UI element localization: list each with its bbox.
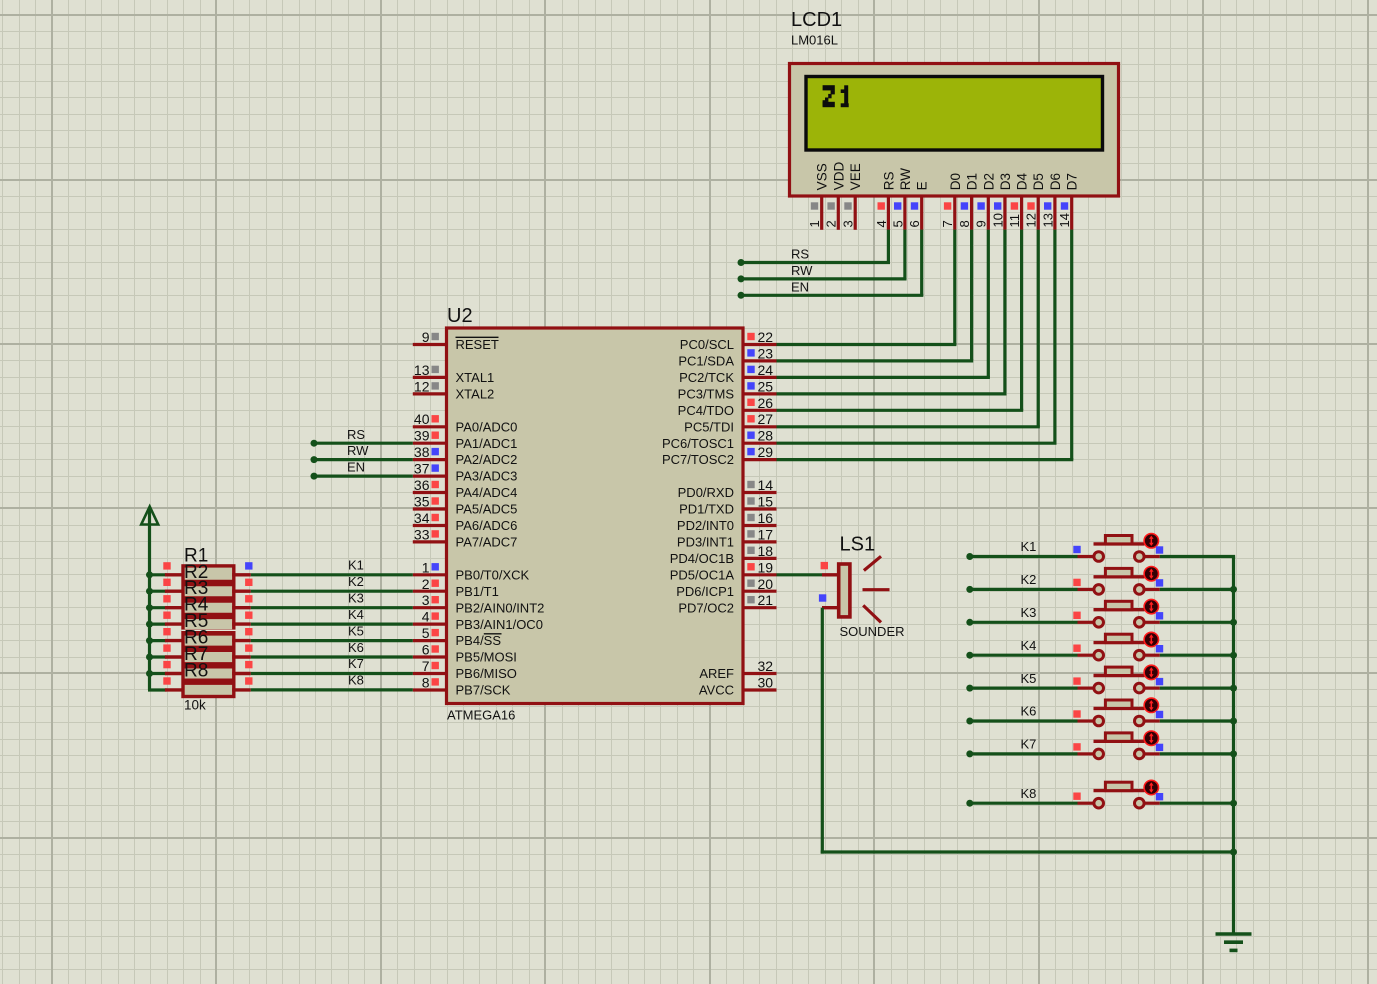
svg-text:EN: EN: [347, 460, 365, 475]
U2 pin 30 AVCC (right): [699, 675, 777, 698]
wire EN net from LCD: [741, 230, 923, 296]
net label EN: [791, 279, 809, 294]
svg-text:K8: K8: [1021, 786, 1037, 801]
svg-text:PA5/ADC5: PA5/ADC5: [456, 502, 518, 517]
LCD pin 10 D3: [990, 173, 1013, 230]
svg-text:19: 19: [758, 559, 774, 575]
resistor R3 pins and stubs: [163, 595, 252, 608]
U2 pin 18 PD4/OC1B (right): [670, 543, 777, 566]
LCD pin 9 D2: [974, 173, 997, 230]
svg-text:13: 13: [1040, 213, 1055, 227]
U2 pin 9 RESET (left): [413, 329, 499, 352]
LCD pin 7 D0: [940, 173, 963, 230]
svg-text:VSS: VSS: [815, 163, 830, 190]
svg-text:30: 30: [758, 675, 774, 691]
U2 pin 3 PB2/AIN0/INT2 (left): [413, 592, 545, 615]
resistor R1 label: [184, 545, 208, 566]
wire D4 LCD pin 11 to U2 pin 26: [777, 230, 1024, 411]
button K1 push switch: [1073, 534, 1163, 562]
svg-text:9: 9: [422, 329, 430, 345]
U2 pin 19 PD5/OC1A (right): [670, 559, 777, 582]
resistor R7 pins and stubs: [163, 661, 252, 674]
svg-text:PA0/ADC0: PA0/ADC0: [456, 419, 518, 434]
U2 pin 8 PB7/SCK (left): [413, 675, 511, 698]
resistor R2 pins and stubs: [163, 579, 252, 592]
net label K5 (buttons): [1021, 671, 1037, 686]
svg-text:3: 3: [422, 592, 430, 608]
svg-text:AREF: AREF: [699, 666, 734, 681]
wire D7 LCD pin 14 to U2 pin 29: [777, 230, 1074, 460]
net label K3 (buttons): [1021, 605, 1037, 620]
wire button K6 to right bus: [1160, 719, 1235, 722]
net label RS left: [347, 427, 365, 442]
resistor pack value 10k: [184, 698, 206, 713]
LCD pin 3 VEE: [841, 163, 864, 230]
junction dot power bus row 4: [146, 621, 153, 628]
wire button K1 to right bus: [1160, 555, 1235, 558]
svg-text:K5: K5: [348, 623, 364, 638]
wire power bus to R1 row 4: [150, 622, 167, 625]
wire D0 LCD pin 7 to U2 pin 22: [777, 230, 957, 345]
resistor R4 label: [184, 595, 209, 616]
svg-text:PC7/TOSC2: PC7/TOSC2: [662, 452, 734, 467]
svg-text:PC0/SCL: PC0/SCL: [680, 337, 734, 352]
button K2 push switch: [1073, 567, 1163, 595]
wire button K8 to right bus: [1160, 802, 1235, 805]
junction dot K1 wire start: [966, 553, 973, 560]
resistor R2 label: [184, 562, 208, 583]
U2 pin 34 PA6/ADC6 (left): [413, 510, 518, 533]
net label RS: [791, 247, 809, 262]
svg-text:28: 28: [758, 428, 774, 444]
svg-text:12: 12: [1024, 213, 1039, 227]
U2 pin 37 PA3/ADC3 (left): [413, 461, 518, 484]
svg-text:3: 3: [841, 220, 856, 227]
wire power bus to R1 row 2: [150, 590, 167, 593]
svg-text:33: 33: [414, 526, 430, 542]
junction dot power bus row 5: [146, 637, 153, 644]
svg-text:24: 24: [758, 362, 774, 378]
net label K2 (buttons): [1021, 572, 1037, 587]
svg-text:5: 5: [890, 220, 905, 227]
U2 pin 28 PC6/TOSC1 (right): [662, 428, 777, 451]
svg-text:PD4/OC1B: PD4/OC1B: [670, 551, 734, 566]
junction dot K3 wire start: [966, 619, 973, 626]
U2 pin 1 PB0/T0/XCK (left): [413, 559, 530, 582]
net label K8 (left): [348, 673, 364, 688]
svg-text:34: 34: [414, 510, 430, 526]
junction dot power bus row 6: [146, 654, 153, 661]
svg-text:PB1/T1: PB1/T1: [456, 584, 499, 599]
resistor R1 pins and stubs: [163, 562, 252, 575]
svg-text:25: 25: [758, 378, 774, 394]
svg-text:U2: U2: [447, 305, 473, 327]
svg-text:16: 16: [758, 510, 774, 526]
svg-text:K3: K3: [1021, 605, 1037, 620]
svg-text:PD5/OC1A: PD5/OC1A: [670, 567, 735, 582]
U2 pin 38 PA2/ADC2 (left): [413, 444, 518, 467]
wire RS net from LCD: [741, 230, 890, 263]
svg-text:2: 2: [422, 576, 430, 592]
svg-text:10k: 10k: [184, 698, 206, 713]
svg-text:K7: K7: [1021, 737, 1037, 752]
mcu U2 reference label: [447, 305, 473, 327]
svg-text:8: 8: [422, 675, 430, 691]
U2 pin 26 PC4/TDO (right): [678, 395, 777, 418]
mcu ATMEGA16 value label: [447, 708, 515, 723]
button K4 push switch: [1073, 632, 1163, 660]
net label EN left: [347, 460, 365, 475]
net label K7 (left): [348, 656, 364, 671]
wire power bus to R1 row 6: [150, 655, 167, 658]
button K5 push switch: [1073, 665, 1163, 693]
net label K2 (left): [348, 574, 364, 589]
svg-text:35: 35: [414, 494, 430, 510]
svg-text:K1: K1: [1021, 539, 1037, 554]
svg-text:PC6/TOSC1: PC6/TOSC1: [662, 436, 734, 451]
wire K5 net to button: [970, 686, 1078, 689]
svg-text:K7: K7: [348, 656, 364, 671]
wire K4 net R1 to U2 pin 4: [251, 622, 413, 625]
resistor R6 pins and stubs: [163, 644, 252, 657]
LCD pin 13 D6: [1040, 173, 1063, 230]
wire D1 LCD pin 8 to U2 pin 23: [777, 230, 974, 361]
svg-text:D1: D1: [965, 173, 980, 190]
svg-text:5: 5: [422, 625, 430, 641]
svg-text:PD0/RXD: PD0/RXD: [678, 485, 734, 500]
resistor pack R1 body (RESPACK-8 10k): [181, 566, 235, 697]
junction dot RS: [738, 259, 745, 266]
U2 pin 29 PC7/TOSC2 (right): [662, 444, 777, 467]
U2 pin 2 PB1/T1 (left): [413, 576, 499, 599]
LCD pin 5 RW: [890, 168, 913, 230]
wire power bus to R1 row 3: [150, 606, 167, 609]
LCD pin 1 VSS: [807, 163, 830, 230]
U2 pin 35 PA5/ADC5 (left): [413, 494, 518, 517]
junction dot RW: [738, 275, 745, 282]
svg-text:7: 7: [422, 658, 430, 674]
svg-text:11: 11: [1007, 214, 1022, 228]
svg-text:14: 14: [1057, 213, 1072, 227]
resistor R4 pins and stubs: [163, 612, 252, 625]
LCD pin 6 E: [907, 181, 930, 230]
wire power rail vertical bus: [148, 509, 151, 690]
power terminal arrow: [141, 507, 158, 525]
svg-text:6: 6: [907, 220, 922, 227]
svg-text:LM016L: LM016L: [791, 33, 838, 48]
svg-text:PC3/TMS: PC3/TMS: [678, 387, 735, 402]
junction dot power bus row 7: [146, 670, 153, 677]
junction dot K6 wire start: [966, 718, 973, 725]
svg-text:XTAL1: XTAL1: [456, 370, 495, 385]
svg-text:20: 20: [758, 576, 774, 592]
svg-text:PA4/ADC4: PA4/ADC4: [456, 485, 518, 500]
LCD pin 2 VDD: [824, 162, 847, 230]
sounder LS1 body: [819, 556, 890, 622]
svg-text:R8: R8: [184, 660, 208, 681]
net label K4 (left): [348, 607, 364, 622]
svg-text:K6: K6: [348, 640, 364, 655]
svg-text:PB0/T0/XCK: PB0/T0/XCK: [456, 567, 530, 582]
svg-text:10: 10: [990, 213, 1005, 227]
svg-text:32: 32: [758, 658, 774, 674]
svg-text:D7: D7: [1065, 173, 1080, 190]
U2 pin 23 PC1/SDA (right): [678, 345, 776, 368]
svg-text:D0: D0: [948, 173, 963, 190]
wire D6 LCD pin 13 to U2 pin 28: [777, 230, 1057, 444]
mcu U2 body: [447, 328, 744, 704]
U2 pin 24 PC2/TCK (right): [679, 362, 776, 385]
svg-text:PB3/AIN1/OC0: PB3/AIN1/OC0: [456, 617, 543, 632]
resistor R3 label: [184, 578, 208, 599]
svg-text:RS: RS: [347, 427, 365, 442]
junction dot power bus row 1: [146, 571, 153, 578]
wire K6 net to button: [970, 719, 1078, 722]
wire K4 net to button: [970, 654, 1078, 657]
U2 pin 25 PC3/TMS (right): [678, 378, 777, 401]
svg-text:PD1/TXD: PD1/TXD: [679, 502, 734, 517]
U2 pin 20 PD6/ICP1 (right): [676, 576, 776, 599]
net label RW: [791, 263, 813, 278]
wire button K2 to right bus: [1160, 588, 1235, 591]
net label K4 (buttons): [1021, 638, 1037, 653]
svg-text:PA3/ADC3: PA3/ADC3: [456, 469, 518, 484]
junction dot power bus row 2: [146, 588, 153, 595]
svg-text:K8: K8: [348, 673, 364, 688]
svg-text:21: 21: [758, 592, 774, 608]
svg-text:PC1/SDA: PC1/SDA: [678, 354, 734, 369]
svg-text:D2: D2: [981, 173, 996, 190]
button K7 push switch: [1073, 731, 1163, 759]
U2 pin 17 PD3/INT1 (right): [677, 526, 777, 549]
wire EN net to U2: [314, 475, 413, 478]
U2 pin 32 AREF (right): [699, 658, 776, 681]
U2 pin 7 PB6/MISO (left): [413, 658, 517, 681]
net label K5 (left): [348, 623, 364, 638]
svg-text:PB4/SS: PB4/SS: [456, 633, 502, 648]
svg-text:1: 1: [422, 559, 430, 575]
LCD pin 4 RS: [874, 172, 897, 230]
svg-text:1: 1: [807, 220, 822, 227]
net label K8 (buttons): [1021, 786, 1037, 801]
U2 pin 12 XTAL2 (left): [413, 378, 494, 401]
wire K5 net R1 to U2 pin 5: [251, 639, 413, 642]
junction dot EN: [738, 292, 745, 299]
junction dot bus K7: [1230, 750, 1237, 757]
net label K1 (buttons): [1021, 539, 1037, 554]
svg-text:37: 37: [414, 461, 430, 477]
svg-text:RW: RW: [791, 263, 813, 278]
net label K6 (left): [348, 640, 364, 655]
sounder LS1 reference label: [840, 534, 876, 556]
svg-text:K4: K4: [348, 607, 364, 622]
junction dot bus K8: [1230, 800, 1237, 807]
wire RW net from LCD: [741, 230, 907, 279]
svg-text:6: 6: [422, 642, 430, 658]
resistor R5 label: [184, 611, 208, 632]
junction dot bus K6: [1230, 718, 1237, 725]
U2 pin 27 PC5/TDI (right): [684, 411, 776, 434]
svg-text:VEE: VEE: [848, 163, 863, 190]
svg-text:27: 27: [758, 411, 774, 427]
svg-text:XTAL2: XTAL2: [456, 387, 495, 402]
button K8 push switch: [1073, 780, 1163, 808]
wire K7 net R1 to U2 pin 7: [251, 672, 413, 675]
svg-text:LCD1: LCD1: [791, 9, 842, 31]
svg-text:PC2/TCK: PC2/TCK: [679, 370, 734, 385]
svg-text:K5: K5: [1021, 671, 1037, 686]
svg-text:EN: EN: [791, 279, 809, 294]
U2 pin 4 PB3/AIN1/OC0 (left): [413, 609, 543, 632]
junction dot bus K4: [1230, 652, 1237, 659]
svg-text:K3: K3: [348, 590, 364, 605]
svg-text:K2: K2: [348, 574, 364, 589]
svg-text:4: 4: [422, 609, 430, 625]
U2 pin 36 PA4/ADC4 (left): [413, 477, 518, 500]
svg-text:2: 2: [824, 220, 839, 227]
junction dot K7 wire start: [966, 750, 973, 757]
U2 pin 40 PA0/ADC0 (left): [413, 411, 518, 434]
svg-text:26: 26: [758, 395, 774, 411]
svg-text:8: 8: [957, 220, 972, 227]
svg-text:29: 29: [758, 444, 774, 460]
LCD pin 11 D4: [1007, 173, 1030, 230]
resistor R7 label: [184, 644, 208, 665]
U2 pin 15 PD1/TXD (right): [679, 494, 776, 517]
wire K1 net to button: [970, 555, 1078, 558]
svg-text:9: 9: [974, 220, 989, 227]
svg-text:4: 4: [874, 220, 889, 227]
svg-text:7: 7: [940, 220, 955, 227]
LCD screen: [806, 77, 1103, 151]
button K6 push switch: [1073, 698, 1163, 726]
net label K7 (buttons): [1021, 737, 1037, 752]
junction dot RW left: [311, 456, 318, 463]
svg-text:RS: RS: [791, 247, 809, 262]
svg-text:K2: K2: [1021, 572, 1037, 587]
svg-text:PB5/MOSI: PB5/MOSI: [456, 650, 517, 665]
LCD pin 14 D7: [1057, 173, 1080, 230]
svg-text:PA6/ADC6: PA6/ADC6: [456, 518, 518, 533]
svg-text:PA2/ADC2: PA2/ADC2: [456, 452, 518, 467]
junction dot sounder wire to bus: [1230, 849, 1237, 856]
junction dot K2 wire start: [966, 586, 973, 593]
wire button K3 to right bus: [1160, 621, 1235, 624]
svg-text:36: 36: [414, 477, 430, 493]
svg-text:K1: K1: [348, 558, 364, 573]
svg-text:D5: D5: [1031, 173, 1046, 190]
junction dot power bus row 3: [146, 604, 153, 611]
net label K6 (buttons): [1021, 704, 1037, 719]
svg-text:15: 15: [758, 494, 774, 510]
junction dot bus K3: [1230, 619, 1237, 626]
svg-text:PB2/AIN0/INT2: PB2/AIN0/INT2: [456, 600, 545, 615]
resistor R6 label: [184, 628, 208, 649]
svg-text:D4: D4: [1015, 173, 1030, 191]
svg-text:18: 18: [758, 543, 774, 559]
svg-text:RESET: RESET: [456, 337, 499, 352]
LCD pin 12 D5: [1024, 173, 1047, 230]
LCD pin 8 D1: [957, 173, 980, 230]
wire K2 net to button: [970, 588, 1078, 591]
sounder SOUNDER value label: [840, 624, 905, 639]
wire power bus to R1 row 7: [150, 672, 167, 675]
LCD LM016L value label: [791, 33, 838, 48]
wire K2 net R1 to U2 pin 2: [251, 590, 413, 593]
wire K7 net to button: [970, 752, 1078, 755]
svg-text:E: E: [915, 181, 930, 190]
wire K3 net to button: [970, 621, 1078, 624]
net label K1 (left): [348, 558, 364, 573]
wire power bus bottom elbow to R1 pin 8: [148, 688, 167, 691]
wire K8 net to button: [970, 802, 1078, 805]
svg-text:PD3/INT1: PD3/INT1: [677, 535, 734, 550]
svg-text:PA7/ADC7: PA7/ADC7: [456, 535, 518, 550]
wire RW net to U2: [314, 458, 413, 461]
resistor R8 pins and stubs: [163, 677, 252, 690]
wire button K5 to right bus: [1160, 686, 1235, 689]
LCD text Z1: [823, 85, 849, 107]
wire button K7 to right bus: [1160, 752, 1235, 755]
svg-text:39: 39: [414, 428, 430, 444]
junction dot RS left: [311, 440, 318, 447]
LCD LCD1 body: [790, 64, 1119, 197]
svg-text:40: 40: [414, 411, 430, 427]
wire K6 net R1 to U2 pin 6: [251, 655, 413, 658]
U2 pin 39 PA1/ADC1 (left): [413, 428, 518, 451]
svg-text:PB7/SCK: PB7/SCK: [456, 683, 511, 698]
junction dot K5 wire start: [966, 685, 973, 692]
svg-text:LS1: LS1: [840, 534, 876, 556]
wire U2 pin 19 to LS1 positive terminal: [777, 573, 823, 576]
wire RS net to U2: [314, 442, 413, 445]
svg-text:VDD: VDD: [831, 162, 846, 191]
svg-text:AVCC: AVCC: [699, 683, 734, 698]
svg-text:38: 38: [414, 444, 430, 460]
wire LS1 negative terminal down to ground bus: [821, 608, 1234, 854]
button K3 push switch: [1073, 599, 1163, 627]
wire K8 net R1 to U2 pin 8: [251, 688, 413, 691]
ground symbol: [1216, 934, 1252, 950]
U2 pin 22 PC0/SCL (right): [680, 329, 777, 352]
net label RW left: [347, 443, 369, 458]
svg-text:RW: RW: [347, 443, 369, 458]
junction dot bus K2: [1230, 586, 1237, 593]
svg-text:PD6/ICP1: PD6/ICP1: [676, 584, 734, 599]
resistor R5 pins and stubs: [163, 628, 252, 641]
LCD LCD1 reference label: [791, 9, 842, 31]
wire right ground bus vertical: [1232, 557, 1235, 934]
svg-text:K6: K6: [1021, 704, 1037, 719]
wire power bus to R1 row 5: [150, 639, 167, 642]
svg-text:13: 13: [414, 362, 430, 378]
svg-text:23: 23: [758, 345, 774, 361]
svg-text:PD7/OC2: PD7/OC2: [678, 600, 734, 615]
wire K3 net R1 to U2 pin 3: [251, 606, 413, 609]
wire D2 LCD pin 9 to U2 pin 24: [777, 230, 990, 378]
U2 pin 16 PD2/INT0 (right): [677, 510, 777, 533]
svg-text:17: 17: [758, 526, 774, 542]
U2 pin 33 PA7/ADC7 (left): [413, 526, 518, 549]
net label K3 (left): [348, 590, 364, 605]
svg-text:RS: RS: [881, 172, 896, 191]
U2 pin 21 PD7/OC2 (right): [678, 592, 776, 615]
U2 pin 13 XTAL1 (left): [413, 362, 494, 385]
svg-text:D6: D6: [1048, 173, 1063, 190]
junction dot EN left: [311, 473, 318, 480]
junction dot K4 wire start: [966, 652, 973, 659]
junction dot K8 wire start: [966, 800, 973, 807]
